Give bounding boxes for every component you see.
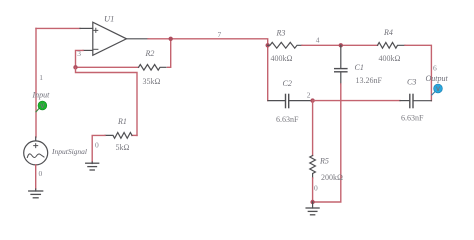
resistor R4	[378, 28, 405, 63]
svg-text:5kΩ: 5kΩ	[116, 143, 130, 152]
wire C1 bottom to ground rail	[313, 84, 341, 202]
wire source bottom to ground	[35, 165, 37, 189]
svg-text:400kΩ: 400kΩ	[271, 54, 293, 63]
svg-text:R1: R1	[117, 117, 127, 126]
source V1 InputSignal	[24, 137, 87, 165]
probe Input	[36, 101, 47, 112]
resistor R3	[268, 29, 302, 64]
svg-text:13.26nF: 13.26nF	[356, 76, 383, 85]
resistor R1	[105, 117, 132, 152]
svg-text:V: V	[40, 104, 44, 110]
wire input vertical net 1	[35, 28, 37, 137]
capacitor C2	[268, 79, 311, 124]
wire node 2 to C3	[313, 100, 400, 102]
wire R2 right up to output	[168, 39, 171, 68]
svg-text:400kΩ: 400kΩ	[379, 54, 401, 63]
wire R1 right lead corner	[132, 134, 137, 136]
svg-text:R3: R3	[276, 29, 286, 38]
svg-text:U1: U1	[104, 13, 114, 23]
wire node 2 down to R5	[312, 101, 314, 156]
svg-text:6.63nF: 6.63nF	[276, 115, 299, 124]
svg-text:0: 0	[95, 141, 99, 150]
junction node 2	[310, 98, 314, 102]
resistor R2	[139, 49, 167, 86]
op-amp U1	[80, 13, 148, 55]
wire R5 bottom to ground	[312, 178, 314, 202]
capacitor C3	[400, 78, 431, 123]
junction output node	[169, 37, 173, 41]
svg-text:7: 7	[218, 30, 222, 39]
junction C1 top	[339, 43, 343, 47]
wire net3 horizontal to R2	[76, 66, 139, 68]
svg-text:C2: C2	[283, 79, 292, 88]
wire R1 left to ground	[92, 135, 105, 162]
ground G1	[29, 189, 43, 198]
svg-text:6: 6	[433, 64, 437, 73]
svg-text:V: V	[436, 87, 440, 93]
junction R3 left	[266, 43, 270, 47]
svg-text:R2: R2	[145, 49, 155, 58]
wire net 4	[302, 44, 378, 46]
resistor R5	[310, 156, 343, 183]
svg-text:Input: Input	[32, 91, 51, 100]
wire input top horizontal	[36, 27, 80, 29]
svg-text:200kΩ: 200kΩ	[321, 173, 343, 182]
wire output right down	[405, 45, 431, 100]
svg-text:C1: C1	[355, 63, 364, 72]
svg-text:3: 3	[77, 49, 81, 58]
probe Output	[432, 84, 443, 95]
ground G3	[306, 202, 319, 215]
capacitor C1	[335, 45, 383, 85]
svg-text:1: 1	[39, 73, 43, 82]
svg-text:Output: Output	[426, 74, 449, 83]
svg-text:R5: R5	[319, 157, 329, 166]
svg-text:0: 0	[314, 183, 318, 192]
svg-text:35kΩ: 35kΩ	[143, 77, 161, 86]
svg-text:InputSignal: InputSignal	[51, 147, 87, 156]
junction node 3	[73, 65, 77, 69]
svg-text:6.63nF: 6.63nF	[401, 114, 424, 123]
ground G2	[86, 162, 99, 170]
wire net3 down to R1	[76, 67, 138, 135]
wire net 7 output horizontal	[148, 39, 268, 101]
svg-text:4: 4	[316, 36, 320, 45]
junction ground node	[310, 200, 314, 204]
wire inverting input to node 3	[76, 50, 84, 67]
svg-text:R4: R4	[383, 28, 393, 37]
svg-text:2: 2	[307, 91, 311, 100]
svg-text:0: 0	[39, 169, 43, 178]
svg-text:C3: C3	[407, 78, 416, 87]
